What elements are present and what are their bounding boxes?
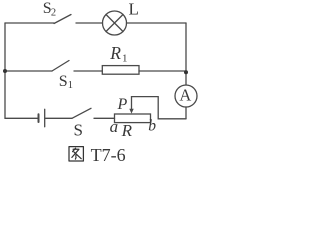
svg-text:P: P [117,96,128,113]
svg-text:b: b [148,118,156,135]
svg-text:R: R [109,43,121,63]
svg-text:A: A [179,86,191,105]
svg-text:1: 1 [122,53,128,65]
svg-text:S: S [74,120,83,139]
svg-text:S: S [59,73,68,90]
svg-text:a: a [110,117,119,136]
svg-text:2: 2 [51,7,56,18]
svg-text:1: 1 [68,80,73,91]
svg-text:R: R [121,121,133,140]
svg-text:L: L [129,0,139,19]
svg-text:T7-6: T7-6 [91,145,126,165]
